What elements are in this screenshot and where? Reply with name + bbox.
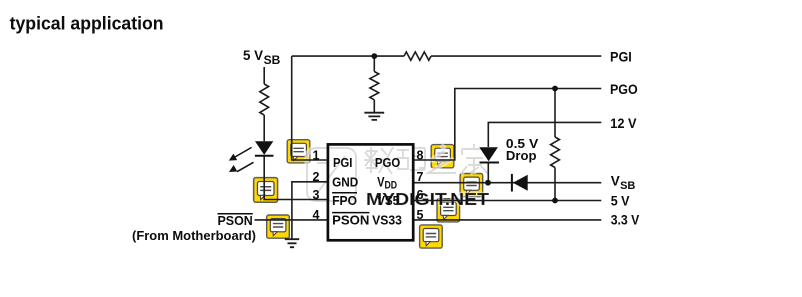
wire: R4 to 5V line — [554, 168, 556, 201]
svg-text:VS5: VS5 — [377, 194, 399, 208]
svg-text:6: 6 — [417, 188, 424, 202]
wire: VS33 pin 5 to 3.3V — [415, 219, 602, 221]
svg-text:2: 2 — [313, 170, 320, 184]
LED D1 — [229, 141, 274, 172]
svg-text:5: 5 — [417, 208, 424, 222]
supervisor IC U1 body — [328, 144, 413, 240]
wire: VDD pin 7 to VSB — [415, 182, 602, 184]
value label 0.5V drop — [506, 136, 539, 163]
svg-text:3.3 V: 3.3 V — [611, 212, 640, 228]
net label PSON (from motherboard) — [132, 214, 256, 243]
wire: pin 8 PGO to rail — [415, 89, 602, 161]
svg-text:8: 8 — [417, 148, 424, 162]
watermark overlay (site logo + glyphs) — [307, 144, 489, 209]
svg-text:Drop: Drop — [506, 148, 537, 163]
node PGO junction dot — [552, 86, 558, 92]
resistor R2 (PGI pulldown) — [370, 72, 379, 100]
wire: R2 to ground — [373, 100, 375, 113]
annotation icon 3 (PSON) — [267, 215, 290, 238]
svg-text:4: 4 — [313, 208, 320, 222]
wire: 12V rail — [488, 122, 601, 147]
wire: D2 cathode to VDD line — [487, 163, 489, 183]
wire: 5VSB to R3 — [263, 67, 265, 84]
wire: R3 to LED anode — [263, 115, 265, 141]
annotation icon 5 (pin 7) — [460, 174, 483, 197]
ground (PGI divider) — [364, 113, 384, 120]
annotation icon 4 (pin 8) — [431, 145, 454, 168]
svg-text:V: V — [611, 174, 620, 189]
ground (GND pin) — [285, 239, 299, 247]
node 5V junction dot — [552, 198, 558, 204]
wire: VS5 pin 6 to 5V — [415, 200, 602, 202]
svg-text:1: 1 — [313, 148, 320, 162]
wire: LED cathode to FPO pin 3 — [264, 156, 326, 200]
svg-text:7: 7 — [417, 170, 424, 184]
diode D2 (0.5V drop from 12V) — [479, 147, 499, 162]
svg-text:PGI: PGI — [610, 48, 632, 64]
svg-text:GND: GND — [332, 176, 358, 190]
node VDD junction dot — [485, 180, 491, 186]
svg-text:VDD: VDD — [377, 175, 397, 192]
svg-text:SB: SB — [264, 53, 281, 67]
wire: PGO pull-up top — [554, 89, 556, 138]
annotation icon 1 (pin 1) — [287, 140, 310, 163]
node A junction dot — [371, 53, 377, 59]
svg-text:3: 3 — [313, 188, 320, 202]
svg-text:PGI: PGI — [333, 156, 352, 170]
resistor R4 (PGO pull-up) — [551, 137, 560, 168]
svg-text:VS33: VS33 — [372, 214, 402, 228]
svg-text:SB: SB — [620, 180, 635, 192]
svg-text:PGO: PGO — [375, 156, 401, 170]
svg-text:PGO: PGO — [610, 81, 638, 97]
annotation icon 6 (pin 6) — [437, 199, 460, 222]
svg-text:PSON: PSON — [332, 214, 369, 228]
svg-text:5 V: 5 V — [611, 193, 630, 209]
resistor R3 (LED series) — [260, 84, 269, 115]
svg-text:FPO: FPO — [332, 194, 357, 208]
U1 pin label FPO (active low) — [332, 193, 357, 208]
U1 pin label PSON (active low) — [332, 213, 369, 228]
wire: riser rail to pin 1 — [292, 56, 327, 160]
resistor R1 (series to PGI) — [404, 52, 431, 60]
wire: PSON input to pin 4 — [255, 219, 327, 221]
annotation icon 7 (pin 5) — [420, 225, 443, 248]
diode D3 (VSB to VDD) — [512, 174, 528, 192]
svg-text:PSON: PSON — [218, 214, 253, 228]
svg-text:5 V: 5 V — [243, 47, 264, 63]
wire: 5VSB top rail — [292, 55, 602, 57]
annotation icon 2 (FPO) — [254, 178, 278, 203]
wire: divider drop at node A — [373, 56, 375, 71]
svg-text:typical application: typical application — [10, 12, 164, 33]
svg-text:(From Motherboard): (From Motherboard) — [132, 228, 256, 243]
svg-text:12 V: 12 V — [610, 115, 637, 131]
wire: GND pin 2 to ground — [292, 182, 327, 239]
